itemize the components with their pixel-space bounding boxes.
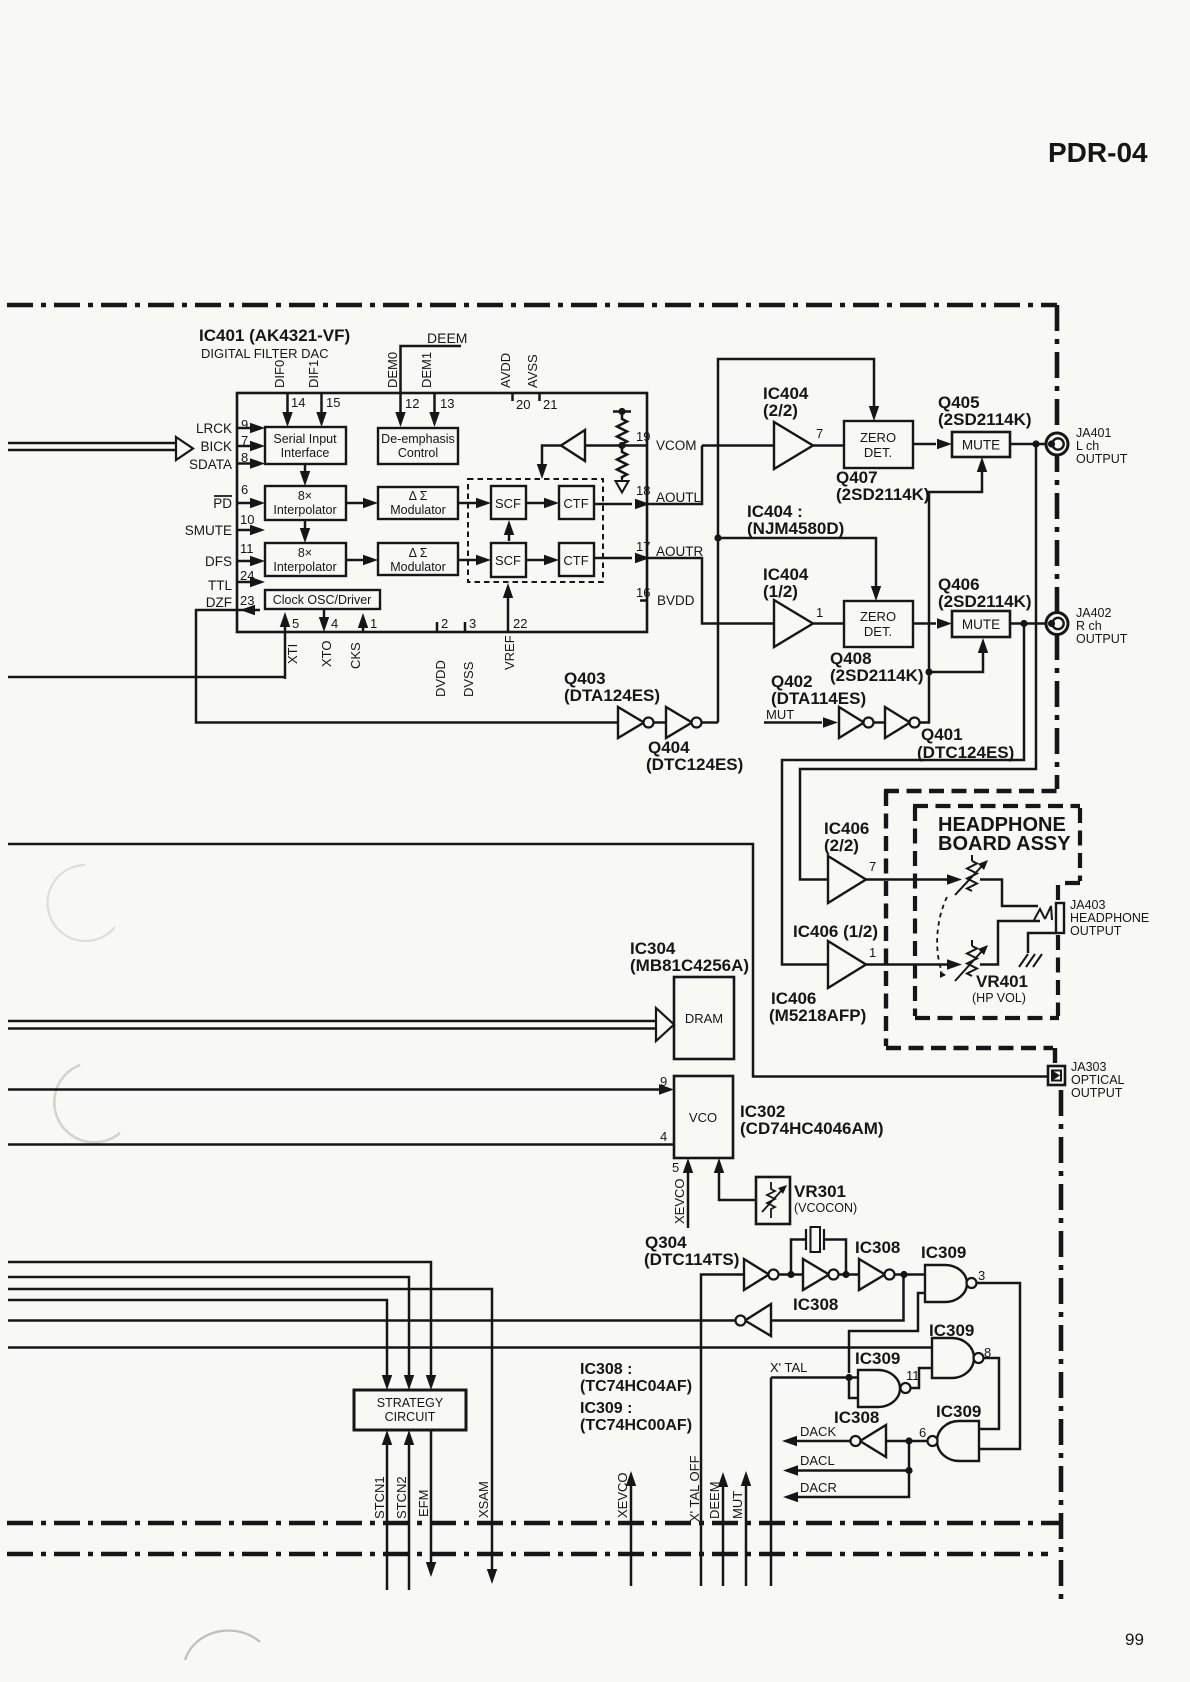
svg-text:(TC74HC00AF): (TC74HC00AF) bbox=[580, 1417, 692, 1434]
wire VCOM node to amp IC404 2/2 input bbox=[702, 444, 774, 447]
arrow zero det L to MUTE L bbox=[913, 443, 936, 446]
svg-text:Interpolator: Interpolator bbox=[273, 560, 336, 574]
inverter IC308 DACK driver (mirrored) bbox=[860, 1425, 886, 1457]
STCN2 riser into box bbox=[408, 1442, 411, 1590]
svg-text:DET.: DET. bbox=[864, 445, 892, 460]
svg-text:19: 19 bbox=[636, 429, 650, 444]
NAND gate IC309-3 bbox=[858, 1370, 900, 1407]
headphone outer dashed box bbox=[884, 791, 1057, 1063]
wire between Q402 Q401 bbox=[873, 721, 885, 724]
wire MUTE R output to JA402 bbox=[1010, 622, 1046, 625]
svg-text:(2/2): (2/2) bbox=[763, 401, 798, 420]
svg-text:SMUTE: SMUTE bbox=[185, 523, 232, 538]
arrow interpolator L to interpolator R bbox=[304, 520, 307, 531]
svg-text:IC309: IC309 bbox=[936, 1402, 981, 1421]
op-amp IC404 2/2 bbox=[774, 422, 813, 469]
connector JA402 bbox=[1046, 613, 1068, 635]
wire MUT into Q402 bbox=[764, 721, 822, 724]
NAND1 lower input wire bbox=[849, 1293, 925, 1373]
wire JA402 node down to headphone amp R bbox=[782, 624, 1024, 965]
svg-text:IC406 (1/2): IC406 (1/2) bbox=[793, 922, 878, 941]
svg-text:1: 1 bbox=[869, 945, 876, 960]
svg-text:14: 14 bbox=[291, 395, 305, 410]
wire C to NAND1 bbox=[894, 1273, 925, 1276]
svg-text:OUTPUT: OUTPUT bbox=[1076, 632, 1128, 646]
svg-text:DACR: DACR bbox=[800, 1480, 837, 1495]
wire amp L to zero det L bbox=[813, 444, 844, 447]
NAND gate IC309-1 bbox=[925, 1265, 967, 1302]
block ZERO DET L bbox=[844, 421, 913, 468]
svg-text:JA402: JA402 bbox=[1076, 606, 1111, 620]
left pin 24 TTL arrow bbox=[237, 581, 252, 584]
svg-text:(1/2): (1/2) bbox=[763, 582, 798, 601]
wire pin15 DIF1 bbox=[320, 394, 323, 414]
inverter IC308 B bbox=[803, 1259, 829, 1290]
svg-text:CTF: CTF bbox=[563, 553, 588, 568]
bus line 3 XSAM down bbox=[8, 1289, 492, 1570]
resistor divider top rail bbox=[613, 410, 631, 413]
node on riser bbox=[925, 668, 932, 675]
DACL wire bbox=[798, 1441, 909, 1471]
wire amp to VR401 lower bbox=[866, 963, 947, 966]
svg-text:21: 21 bbox=[543, 397, 557, 412]
svg-text:23: 23 bbox=[240, 593, 254, 608]
pin 4 wire into VCO bbox=[8, 1143, 674, 1146]
block SCF R bbox=[491, 543, 526, 577]
wire buffer input from resistor node bbox=[585, 444, 647, 447]
svg-text:DET.: DET. bbox=[864, 624, 892, 639]
bottom pin 1 CKS arrow bbox=[362, 626, 365, 632]
input bus double arrow LRCK/BICK/SDATA bbox=[8, 443, 176, 450]
svg-text:Interface: Interface bbox=[281, 446, 330, 460]
resistor upper bbox=[617, 412, 627, 447]
svg-text:XSAM: XSAM bbox=[476, 1481, 491, 1518]
svg-text:(DTA114ES): (DTA114ES) bbox=[771, 689, 866, 708]
svg-text:VCOM: VCOM bbox=[656, 438, 697, 453]
arrow SII to interpolator L bbox=[304, 464, 307, 474]
block MUTE R bbox=[952, 611, 1010, 637]
svg-text:18: 18 bbox=[636, 483, 650, 498]
block CTF R bbox=[559, 543, 594, 576]
X'TAL OFF riser and input wire to osc chain bbox=[701, 1275, 744, 1587]
svg-text:CKS: CKS bbox=[348, 642, 363, 669]
svg-text:(HP VOL): (HP VOL) bbox=[972, 991, 1026, 1005]
svg-text:DVSS: DVSS bbox=[461, 661, 476, 697]
block Serial Input Interface bbox=[265, 427, 346, 464]
svg-text:1: 1 bbox=[816, 605, 823, 620]
svg-text:4: 4 bbox=[331, 616, 338, 631]
svg-text:1: 1 bbox=[370, 616, 377, 631]
wire DZF out and down to Q403 bbox=[196, 610, 618, 723]
svg-text:MUT: MUT bbox=[730, 1491, 745, 1519]
svg-text:13: 13 bbox=[440, 396, 454, 411]
arrow zero det R to MUTE R bbox=[913, 622, 936, 625]
DACK wire bbox=[797, 1440, 851, 1443]
svg-text:DEM1: DEM1 bbox=[419, 352, 434, 388]
svg-text:DEM0: DEM0 bbox=[385, 352, 400, 388]
X'TAL wire and riser bbox=[771, 1378, 858, 1587]
pin16 BVDD tick bbox=[640, 599, 647, 602]
VR301 box bbox=[756, 1177, 790, 1224]
pin20 tick bbox=[511, 394, 514, 401]
svg-text:SCF: SCF bbox=[495, 553, 521, 568]
feed to zero det R bbox=[718, 538, 876, 588]
svg-text:(M5218AFP): (M5218AFP) bbox=[769, 1006, 866, 1025]
svg-text:(TC74HC04AF): (TC74HC04AF) bbox=[580, 1378, 692, 1395]
svg-text:5: 5 bbox=[672, 1160, 679, 1175]
strategy bus line 2 into box bbox=[8, 1277, 409, 1378]
svg-text:10: 10 bbox=[240, 512, 254, 527]
svg-text:ZERO: ZERO bbox=[860, 430, 896, 445]
svg-text:XTO: XTO bbox=[319, 641, 334, 668]
block STRATEGY CIRCUIT bbox=[354, 1390, 466, 1430]
svg-text:IC401 (AK4321-VF): IC401 (AK4321-VF) bbox=[199, 326, 350, 345]
block SCF L bbox=[491, 486, 526, 519]
wire B to C bbox=[838, 1273, 859, 1276]
svg-text:DZF: DZF bbox=[206, 595, 232, 610]
svg-text:CIRCUIT: CIRCUIT bbox=[385, 1410, 436, 1424]
svg-text:VR401: VR401 bbox=[976, 972, 1028, 991]
svg-text:24: 24 bbox=[240, 568, 254, 583]
DACR wire bbox=[798, 1471, 909, 1498]
svg-text:IC308 :: IC308 : bbox=[580, 1361, 632, 1378]
block 8x Interpolator L bbox=[265, 486, 346, 520]
svg-text:DEEM: DEEM bbox=[707, 1481, 722, 1519]
block MUTE L bbox=[952, 432, 1010, 457]
left pin 10 SMUTE arrow bbox=[237, 529, 252, 532]
inverter IC308 reverse (line5 driver) bbox=[745, 1304, 771, 1336]
svg-text:PD: PD bbox=[213, 496, 232, 511]
svg-text:STRATEGY: STRATEGY bbox=[377, 1396, 444, 1410]
svg-text:OUTPUT: OUTPUT bbox=[1070, 924, 1122, 938]
VR401 lower pot bbox=[967, 946, 977, 976]
svg-text:MUTE: MUTE bbox=[962, 617, 1000, 632]
svg-text:DFS: DFS bbox=[205, 554, 232, 569]
ground hatch bbox=[1019, 954, 1042, 967]
XEVCO bottom arrow bbox=[630, 1483, 633, 1586]
reverse inverter input tap bbox=[771, 1275, 904, 1321]
left pin 6 PD arrow bbox=[237, 502, 252, 505]
NAND2 output to NAND4 bbox=[979, 1358, 999, 1429]
svg-text:MUT: MUT bbox=[766, 707, 794, 722]
pin21 tick bbox=[538, 394, 541, 401]
svg-text:9: 9 bbox=[241, 417, 248, 432]
svg-text:8×: 8× bbox=[298, 489, 312, 503]
svg-text:(NJM4580D): (NJM4580D) bbox=[747, 519, 844, 538]
svg-text:(2/2): (2/2) bbox=[824, 836, 859, 855]
svg-text:SCF: SCF bbox=[495, 496, 521, 511]
op-amp IC404 1/2 bbox=[774, 600, 813, 647]
svg-text:AVDD: AVDD bbox=[498, 353, 513, 388]
svg-text:X' TAL OFF: X' TAL OFF bbox=[687, 1455, 702, 1522]
border dash-dot bottom line 1 bbox=[7, 1521, 1059, 1526]
svg-text:Q401: Q401 bbox=[921, 725, 963, 744]
svg-text:STCN2: STCN2 bbox=[394, 1476, 409, 1519]
border dash-dot bottom line 2 bbox=[7, 1552, 1048, 1557]
svg-text:CTF: CTF bbox=[563, 496, 588, 511]
IC401 body box bbox=[237, 393, 647, 632]
pin 9 wire into VCO bbox=[8, 1088, 659, 1091]
svg-text:3: 3 bbox=[978, 1268, 985, 1283]
svg-text:LRCK: LRCK bbox=[196, 421, 232, 436]
headphone inner dashed box bbox=[913, 806, 1080, 1018]
mute control vertical from Q403/Q404 chain bbox=[718, 359, 874, 723]
long wire to optical output bbox=[8, 844, 1048, 1077]
svg-text:(DTC114TS): (DTC114TS) bbox=[644, 1250, 739, 1269]
wire line5 from reverse inverter bbox=[8, 1319, 736, 1322]
VR401 upper pot bbox=[967, 861, 977, 891]
svg-text:Serial Input: Serial Input bbox=[273, 432, 337, 446]
crystal X301 bbox=[791, 1240, 846, 1275]
pin 2 tick bbox=[436, 622, 439, 632]
svg-text:(DTA124ES): (DTA124ES) bbox=[564, 686, 660, 705]
svg-text:XEVCO: XEVCO bbox=[672, 1178, 687, 1224]
svg-text:(2SD2114K): (2SD2114K) bbox=[830, 666, 924, 685]
op-amp IC406 2/2 bbox=[828, 856, 866, 903]
JA403 jack sleeve bbox=[1056, 903, 1064, 933]
wire AOUTL to node bbox=[647, 446, 702, 505]
svg-text:5: 5 bbox=[292, 616, 299, 631]
svg-text:Modulator: Modulator bbox=[390, 503, 446, 517]
svg-text:DVDD: DVDD bbox=[433, 660, 448, 697]
wire buffer output to dashed box bbox=[542, 446, 561, 467]
svg-text:Δ Σ: Δ Σ bbox=[409, 546, 428, 560]
NAND gate IC309-4 mirrored bbox=[937, 1421, 979, 1461]
wire amp to VR401 upper bbox=[866, 878, 947, 881]
wire MUTE L output to JA401 bbox=[1010, 443, 1046, 446]
svg-text:X' TAL: X' TAL bbox=[770, 1360, 807, 1375]
block VCO IC302 bbox=[674, 1076, 733, 1158]
svg-text:16: 16 bbox=[636, 585, 650, 600]
svg-text:7: 7 bbox=[241, 433, 248, 448]
svg-text:7: 7 bbox=[816, 426, 823, 441]
svg-text:AVSS: AVSS bbox=[525, 354, 540, 388]
svg-text:DRAM: DRAM bbox=[685, 1011, 723, 1026]
block DRAM bbox=[674, 977, 734, 1059]
border dash-dot top bbox=[7, 303, 1057, 308]
arrow CTF R to pin17 bbox=[594, 557, 632, 560]
block CTF L bbox=[559, 486, 594, 519]
arrow interpolator L to modulator L bbox=[346, 502, 365, 505]
strategy bus line 1 into box bbox=[8, 1262, 431, 1378]
svg-text:OPTICAL: OPTICAL bbox=[1071, 1073, 1125, 1087]
dashed analog filter box bbox=[468, 479, 603, 582]
svg-text:DACL: DACL bbox=[800, 1453, 835, 1468]
svg-text:8: 8 bbox=[241, 450, 248, 465]
inverter Q401 bbox=[885, 707, 910, 738]
svg-text:7: 7 bbox=[869, 859, 876, 874]
arrow SCF R to SCF L bbox=[508, 532, 511, 541]
pin 3 tick bbox=[464, 622, 467, 632]
svg-text:99: 99 bbox=[1125, 1630, 1144, 1649]
block Clock OSC/Driver bbox=[265, 590, 380, 609]
scan smudge upper bbox=[48, 865, 115, 941]
block De-emphasis Control bbox=[378, 428, 458, 464]
svg-text:XEVCO: XEVCO bbox=[615, 1472, 630, 1518]
wire VR301 to VCO bbox=[719, 1171, 756, 1200]
svg-text:IC308: IC308 bbox=[855, 1238, 900, 1257]
NAND4 output wire to inverter bbox=[886, 1440, 928, 1443]
svg-text:8×: 8× bbox=[298, 546, 312, 560]
svg-text:JA303: JA303 bbox=[1071, 1060, 1106, 1074]
strategy bus line 4 into box bbox=[8, 1300, 387, 1378]
svg-text:Modulator: Modulator bbox=[390, 560, 446, 574]
inverter Q404 bbox=[666, 707, 692, 738]
block Delta-Sigma Modulator L bbox=[378, 487, 458, 519]
DEEM bottom arrow bbox=[722, 1484, 725, 1586]
svg-text:DACK: DACK bbox=[800, 1424, 836, 1439]
svg-text:6: 6 bbox=[241, 482, 248, 497]
block 8x Interpolator R bbox=[265, 543, 346, 576]
svg-text:(MB81C4256A): (MB81C4256A) bbox=[630, 956, 749, 975]
wire JA401 node down to headphone amp L bbox=[800, 444, 1036, 880]
wire between Q403 Q404 bbox=[653, 721, 666, 724]
inverter Q403 bbox=[618, 707, 644, 738]
svg-text:Interpolator: Interpolator bbox=[273, 503, 336, 517]
svg-text:(2SD2114K): (2SD2114K) bbox=[938, 592, 1032, 611]
svg-text:R ch: R ch bbox=[1076, 619, 1102, 633]
arrow SCF R to CTF R bbox=[526, 559, 546, 562]
left pin 11 DFS arrow bbox=[237, 560, 252, 563]
wire pin14 DIF0 bbox=[286, 394, 289, 414]
border dash-dot right upper bbox=[1055, 305, 1060, 789]
svg-text:(VCOCON): (VCOCON) bbox=[794, 1201, 857, 1215]
svg-text:IC308: IC308 bbox=[834, 1408, 879, 1427]
svg-text:(CD74HC4046AM): (CD74HC4046AM) bbox=[740, 1119, 884, 1138]
svg-text:HEADPHONE: HEADPHONE bbox=[1070, 911, 1149, 925]
EFM line down from box bbox=[430, 1430, 433, 1563]
svg-text:3: 3 bbox=[469, 616, 476, 631]
connector JA401 bbox=[1046, 433, 1068, 455]
wire line6 to NAND2 bbox=[8, 1346, 932, 1349]
VR301 trimmer symbol bbox=[767, 1182, 775, 1218]
bottom pin 4 XTO arrow (out) bbox=[323, 609, 326, 618]
svg-text:VR301: VR301 bbox=[794, 1182, 846, 1201]
buffer amp inside IC401 bbox=[561, 430, 585, 461]
svg-text:4: 4 bbox=[660, 1129, 667, 1144]
svg-text:17: 17 bbox=[636, 539, 650, 554]
svg-text:VREF: VREF bbox=[502, 635, 517, 670]
svg-text:20: 20 bbox=[516, 397, 530, 412]
svg-text:IC309 :: IC309 : bbox=[580, 1400, 632, 1417]
svg-text:BOARD ASSY: BOARD ASSY bbox=[938, 833, 1071, 855]
left pin 7 BICK arrow bbox=[237, 445, 252, 448]
node on zero-det feed bbox=[714, 534, 721, 541]
data bus double arrow into DRAM bbox=[8, 1021, 656, 1029]
jack ground wire bbox=[1028, 933, 1056, 953]
scan smudge lower bbox=[54, 1065, 120, 1142]
svg-text:Clock OSC/Driver: Clock OSC/Driver bbox=[273, 593, 372, 607]
block Delta-Sigma Modulator R bbox=[378, 543, 458, 575]
NAND3 lower input tie bbox=[849, 1378, 858, 1399]
STCN1 riser into box bbox=[386, 1442, 389, 1590]
svg-text:JA403: JA403 bbox=[1070, 898, 1105, 912]
bottom pin 5 XTI arrow bbox=[284, 625, 287, 679]
wire VR401 lower to jack ring bbox=[980, 921, 1040, 965]
connector JA303 optical bbox=[1048, 1066, 1065, 1085]
border dash-dot right lower bbox=[1059, 1090, 1064, 1604]
svg-text:IC309: IC309 bbox=[855, 1349, 900, 1368]
wire Q401 output riser to mute controls bbox=[919, 470, 982, 723]
svg-text:DIF0: DIF0 bbox=[272, 360, 287, 388]
svg-text:DIGITAL FILTER DAC: DIGITAL FILTER DAC bbox=[201, 346, 329, 361]
svg-text:6: 6 bbox=[919, 1425, 926, 1440]
NAND2 lower input from NAND3 bbox=[910, 1368, 932, 1388]
svg-text:11: 11 bbox=[906, 1368, 920, 1383]
svg-text:EFM: EFM bbox=[416, 1490, 431, 1517]
svg-text:12: 12 bbox=[405, 396, 419, 411]
arrow modulator L to SCF L bbox=[458, 502, 478, 505]
svg-text:JA401: JA401 bbox=[1076, 426, 1111, 440]
ground open arrow bbox=[616, 479, 629, 493]
svg-text:XTI: XTI bbox=[285, 644, 300, 664]
svg-text:VCO: VCO bbox=[689, 1110, 717, 1125]
wire AOUTR out bbox=[647, 558, 774, 624]
pin 5 XEVCO wire bbox=[687, 1171, 690, 1228]
svg-text:L ch: L ch bbox=[1076, 439, 1099, 453]
svg-text:BICK: BICK bbox=[200, 439, 232, 454]
svg-text:IC308: IC308 bbox=[793, 1295, 838, 1314]
arrow SCF L to CTF L bbox=[526, 502, 546, 505]
svg-text:DEEM: DEEM bbox=[427, 330, 467, 346]
svg-text:BVDD: BVDD bbox=[657, 593, 695, 608]
NAND gate IC309-2 bbox=[932, 1338, 974, 1378]
wire VR401 upper to jack tip bbox=[980, 880, 1038, 907]
wire XTI long feed from left bbox=[8, 676, 285, 679]
inverter Q304 buffer A bbox=[744, 1259, 769, 1290]
op-amp IC406 1/2 bbox=[828, 941, 866, 988]
svg-text:15: 15 bbox=[326, 395, 340, 410]
wire A to B bbox=[778, 1273, 803, 1276]
left pin 9 LRCK arrow bbox=[237, 427, 252, 430]
svg-text:(2SD2114K): (2SD2114K) bbox=[938, 410, 1032, 429]
wire amp R to zero det R bbox=[813, 622, 844, 625]
svg-text:DIF1: DIF1 bbox=[306, 360, 321, 388]
svg-text:11: 11 bbox=[240, 541, 254, 556]
svg-text:2: 2 bbox=[441, 616, 448, 631]
NAND1 output to NAND4 bbox=[976, 1283, 1020, 1449]
inverter Q402 bbox=[839, 707, 864, 738]
svg-text:Δ Σ: Δ Σ bbox=[409, 489, 428, 503]
left pin 8 SDATA arrow bbox=[237, 462, 252, 465]
svg-text:PDR-04: PDR-04 bbox=[1048, 137, 1148, 168]
pot gang dashed link bbox=[937, 897, 947, 972]
jack switch contacts bbox=[1034, 906, 1052, 920]
svg-text:OUTPUT: OUTPUT bbox=[1076, 452, 1128, 466]
svg-text:STCN1: STCN1 bbox=[372, 1476, 387, 1519]
wire DEEM to pin12 bbox=[401, 346, 462, 414]
scan smudge bottom left arc bbox=[185, 1630, 260, 1660]
arrow CTF L to pin18 bbox=[594, 503, 632, 506]
wire pin13 DEM1 bbox=[433, 394, 436, 414]
svg-text:IC309: IC309 bbox=[921, 1243, 966, 1262]
svg-text:(DTC124ES): (DTC124ES) bbox=[646, 755, 743, 774]
branch to MUTE R control bbox=[929, 651, 983, 672]
left pin 23 DZF arrow (out) bbox=[242, 609, 260, 612]
svg-text:De-emphasis: De-emphasis bbox=[381, 432, 455, 446]
svg-text:ZERO: ZERO bbox=[860, 609, 896, 624]
resistor lower bbox=[617, 446, 627, 479]
arrow VREF pin22 to filter box bbox=[507, 596, 510, 632]
svg-text:TTL: TTL bbox=[208, 578, 232, 593]
wire Q404 output to feed riser bbox=[701, 721, 718, 724]
svg-text:Control: Control bbox=[398, 446, 438, 460]
inverter IC308 C bbox=[859, 1259, 885, 1290]
svg-text:(2SD2114K): (2SD2114K) bbox=[836, 485, 930, 504]
block ZERO DET R bbox=[844, 601, 913, 647]
svg-text:9: 9 bbox=[660, 1074, 667, 1089]
MUT bottom arrow bbox=[745, 1483, 748, 1586]
